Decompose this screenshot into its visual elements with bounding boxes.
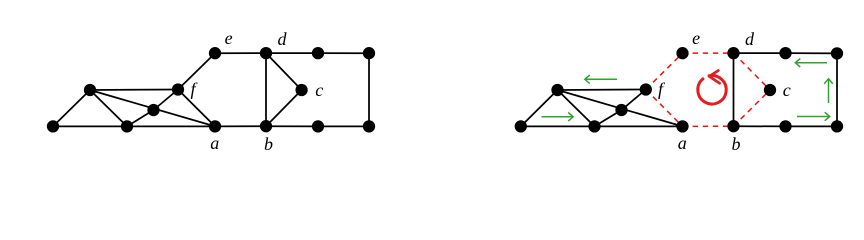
wire v4'-f' (622, 90, 646, 111)
node f' (640, 83, 652, 95)
green arrow left (above v2'-f' edge) (585, 75, 617, 84)
wire v3'-a' (595, 125, 683, 127)
wire d-c (266, 53, 302, 90)
node t4 (363, 47, 375, 59)
green arrow up (left of t4'-b4' edge) (824, 79, 833, 103)
node a (209, 120, 221, 132)
wire v1'-v3' (521, 125, 595, 127)
node d' (727, 47, 739, 59)
wire t4-b4 (368, 53, 370, 126)
svg-text:e: e (692, 28, 700, 48)
wire dashed a'-b' (683, 125, 734, 127)
svg-text:c: c (315, 80, 323, 100)
node b3 (312, 120, 324, 132)
node v4' (615, 104, 627, 116)
wire v2'-a' (558, 90, 683, 126)
node d (260, 47, 272, 59)
node v4 (147, 104, 159, 116)
node v3' (588, 120, 600, 132)
wire f-e (178, 53, 215, 89)
wire t3'-t4' (786, 52, 838, 54)
wire v4-f (154, 90, 179, 111)
svg-text:d: d (278, 29, 288, 49)
node e (209, 47, 221, 59)
node t3 (312, 47, 324, 59)
wire v3-v4 (127, 110, 154, 126)
wire v2-a (90, 90, 215, 126)
wire v1-v2 (53, 90, 90, 126)
wire dashed f'-e' (646, 53, 683, 89)
wire v1'-v2' (521, 90, 558, 126)
green arrow right (bottom-left of right graph) (542, 113, 574, 122)
wire b3'-b4' (786, 125, 838, 127)
node e' (676, 47, 688, 59)
wire dashed e'-d' (683, 52, 734, 54)
wire d'-b' (733, 53, 735, 126)
node t3' (779, 47, 791, 59)
wire v2'-v3' (558, 90, 595, 126)
svg-text:d: d (745, 29, 755, 49)
wire dashed d'-c' (734, 53, 771, 90)
red rotation arrow (center of hexagon) (698, 71, 726, 104)
node v2 (84, 84, 96, 96)
node b' (727, 120, 739, 132)
node t4' (831, 47, 843, 59)
wire d-t3 (266, 52, 318, 54)
wire b-c (266, 90, 302, 126)
node v3 (121, 120, 133, 132)
wire v2-f (90, 89, 178, 92)
wire dashed b'-c' (734, 90, 771, 126)
wire a-b (215, 125, 266, 127)
wire b3-b4 (318, 125, 369, 127)
node b3' (779, 120, 791, 132)
node v1 (47, 120, 59, 132)
wire dashed f'-a' (646, 90, 683, 127)
wire v2'-f' (558, 89, 646, 92)
green arrow right (above b3'-b4' edge) (797, 112, 830, 121)
wire f-a (178, 90, 215, 127)
node b4 (363, 120, 375, 132)
svg-text:b: b (732, 134, 741, 154)
wire b-b3 (266, 125, 318, 127)
wire d'-t3' (734, 52, 786, 54)
wire t3-t4 (318, 52, 369, 54)
wire v2-v3 (90, 90, 127, 126)
node a' (676, 120, 688, 132)
node c' (764, 84, 776, 96)
node b (260, 120, 272, 132)
wire v1-v3 (53, 125, 127, 127)
node v1' (515, 120, 527, 132)
wire e-d (215, 52, 266, 54)
wire v3'-v4' (595, 110, 622, 126)
node c (295, 84, 307, 96)
node b4' (831, 120, 843, 132)
wire d-b (265, 53, 267, 126)
node f (172, 83, 184, 95)
svg-text:c: c (783, 80, 791, 100)
node v2' (551, 84, 563, 96)
wire t4'-b4' (836, 53, 838, 126)
wire b'-b3' (734, 125, 786, 127)
green arrow left (below t3'-t4' edge) (795, 59, 827, 68)
svg-text:a: a (678, 133, 687, 153)
wire v3-a (127, 125, 215, 127)
svg-text:e: e (225, 28, 233, 48)
svg-text:b: b (264, 134, 273, 154)
svg-text:a: a (210, 133, 219, 153)
